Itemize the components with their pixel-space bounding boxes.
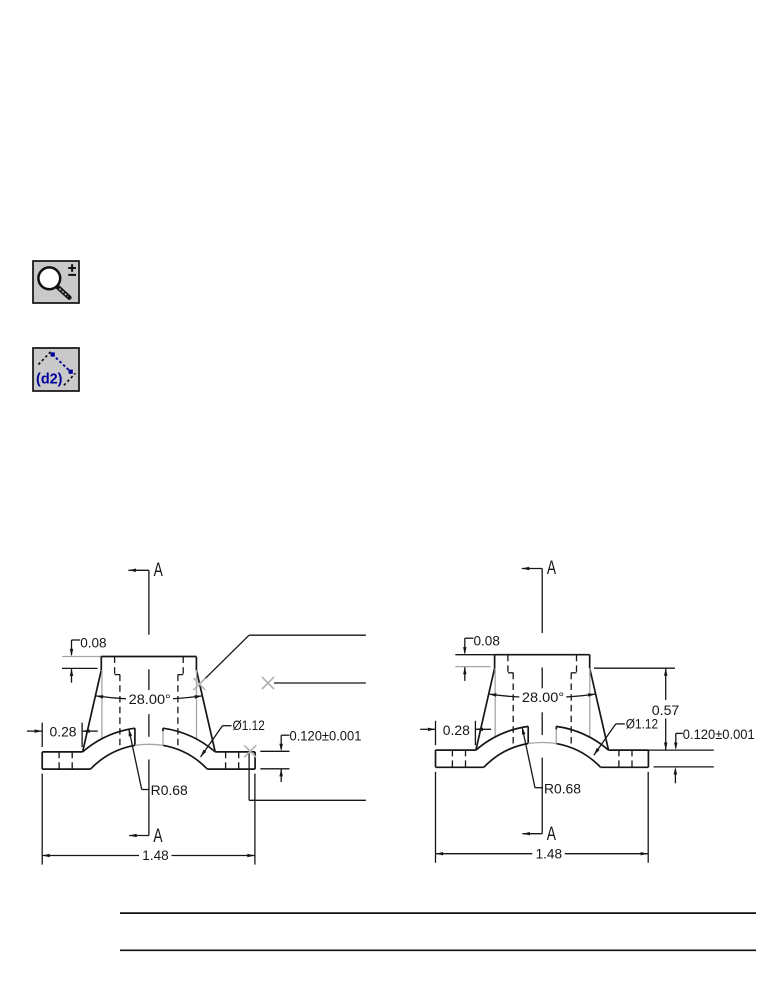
leader radius 0.68: [522, 727, 581, 796]
hole gap edge left: [527, 726, 529, 743]
extension line flange top right: [648, 749, 714, 751]
toolbar icon zoom lens: [38, 267, 60, 289]
flange top edge left: [42, 751, 82, 753]
dimension 0.57: [652, 668, 680, 750]
horizontal rule upper: [120, 912, 756, 914]
inner dome arc left: [91, 745, 135, 769]
hidden step left: [508, 672, 513, 674]
svg-text:0.28: 0.28: [443, 722, 470, 738]
part top edge: [495, 654, 590, 656]
flange left end: [435, 750, 437, 767]
toolbar icon zoom plusminus: [68, 264, 76, 275]
horizontal rule lower: [120, 949, 756, 951]
outer dome arc left: [476, 726, 528, 750]
svg-text:(d2): (d2): [36, 371, 63, 388]
angular dimension 28.00: [96, 691, 203, 707]
hidden line right inner: [570, 673, 572, 747]
inner dome arc right: [556, 744, 600, 768]
hidden line right inner: [177, 675, 179, 749]
dimension 1.48: [436, 772, 649, 863]
flange hidden line 2: [465, 750, 467, 767]
flange right end: [647, 750, 649, 767]
leader callout lower: [249, 751, 366, 800]
hidden step right: [571, 672, 576, 674]
top edge extension (0.08 datum): [455, 654, 494, 656]
top edge extension (0.08 datum): [62, 656, 101, 658]
svg-text:0.28: 0.28: [50, 724, 77, 740]
toolbar icon d2 dashed left: [38, 352, 51, 365]
svg-text:28.00°: 28.00°: [522, 690, 564, 705]
flange hidden line 4: [631, 750, 633, 767]
leader callout middle: [274, 682, 366, 684]
phantom arc across hole: [135, 744, 163, 745]
flange bottom edge left: [436, 766, 484, 768]
svg-text:A: A: [153, 826, 162, 847]
toolbar icon d2 label: [36, 371, 63, 388]
svg-text:A: A: [547, 824, 556, 845]
phantom vertical right: [589, 668, 591, 737]
hidden line left inner: [119, 675, 121, 749]
dimension 0.08: [463, 633, 500, 681]
taper edge right: [196, 670, 215, 752]
svg-text:28.00°: 28.00°: [129, 692, 171, 707]
section marker A top: [128, 560, 163, 581]
section marker A bottom: [522, 824, 556, 845]
hidden line left outer: [507, 655, 509, 673]
section marker A top: [522, 558, 557, 579]
leader diameter 1.12: [201, 718, 265, 757]
hole gap edge right: [162, 728, 164, 745]
inner dome arc left: [484, 744, 528, 768]
toolbar icon zoom handle: [58, 287, 69, 297]
toolbar icon d2 dashed blue: [52, 354, 71, 373]
outer dome arc left: [83, 728, 135, 752]
phantom vertical left: [494, 668, 496, 737]
grip mark on taper: [193, 678, 205, 690]
taper edge right: [590, 668, 609, 750]
flange top edge right: [609, 749, 649, 751]
dimension 0.08: [70, 634, 107, 682]
extension line 0.57 top: [594, 667, 675, 669]
dimension 0.120 lower arrow: [674, 767, 678, 783]
flange hidden line 2: [71, 752, 73, 769]
hole gap edge right: [555, 726, 557, 743]
boss corner edge left: [494, 655, 496, 669]
svg-text:1.48: 1.48: [142, 847, 169, 863]
boss corner edge left: [100, 657, 102, 671]
hidden line left outer: [114, 657, 116, 675]
dimension 0.120 tolerance: [260, 728, 361, 782]
flange right end: [254, 752, 256, 769]
section centerline: [541, 569, 543, 834]
svg-text:R0.68: R0.68: [151, 783, 188, 798]
grip mark on leader: [262, 677, 274, 689]
part top edge: [101, 656, 196, 658]
flange hidden line 3: [225, 752, 227, 769]
hidden line right outer: [576, 655, 578, 673]
taper edge left: [476, 668, 495, 750]
svg-text:0.120±0.001: 0.120±0.001: [683, 726, 755, 742]
dimension 0.28: [27, 723, 98, 747]
svg-text:0.08: 0.08: [80, 634, 107, 650]
flange bottom edge right: [601, 766, 649, 768]
phantom vertical left: [101, 670, 103, 739]
hidden line right outer: [182, 657, 184, 675]
flange left end: [41, 752, 43, 769]
svg-text:A: A: [154, 560, 163, 581]
phantom arc across hole: [528, 743, 556, 744]
extension line 0.08 step: [62, 667, 98, 669]
leader callout upper: [199, 635, 366, 684]
flange hidden line 3: [618, 750, 620, 767]
boss corner edge right: [195, 657, 197, 671]
flange top edge left: [436, 749, 476, 751]
svg-text:0.08: 0.08: [474, 633, 501, 649]
section marker A bottom: [129, 826, 163, 847]
flange top edge right: [215, 751, 255, 753]
section centerline: [148, 570, 150, 835]
leader radius 0.68: [129, 729, 188, 798]
dimension 1.48: [42, 774, 255, 865]
phantom vertical right: [196, 670, 198, 739]
flange hidden line 4: [238, 752, 240, 769]
hidden step left: [115, 674, 120, 676]
flange bottom edge right: [207, 768, 255, 770]
hidden step right: [178, 674, 183, 676]
taper edge left: [83, 670, 102, 752]
angular dimension 28.00: [489, 689, 596, 705]
left section drawing: [27, 560, 362, 865]
outer dome arc right: [556, 726, 608, 750]
toolbar icon d2 grip1: [51, 352, 55, 356]
right section drawing: [420, 558, 755, 863]
grip mark on flange: [244, 745, 256, 757]
svg-text:0.120±0.001: 0.120±0.001: [290, 728, 362, 744]
toolbar icon d2 dashed right: [64, 373, 76, 385]
toolbar icon d2 grip2: [69, 370, 73, 374]
svg-text:1.48: 1.48: [536, 845, 563, 861]
extension line 0.08 step: [455, 666, 491, 668]
hidden line left inner: [512, 673, 514, 747]
flange hidden line 1: [58, 752, 60, 769]
dimension 0.120 tolerance: [674, 726, 755, 750]
svg-text:0.57: 0.57: [652, 702, 680, 718]
svg-text:R0.68: R0.68: [544, 781, 581, 796]
leader diameter 1.12: [594, 716, 658, 755]
toolbar icon d2 box: [33, 348, 79, 391]
flange bottom edge left: [42, 768, 90, 770]
dimension 0.28: [420, 721, 491, 745]
svg-text:Ø1.12: Ø1.12: [626, 716, 658, 731]
boss corner edge right: [589, 655, 591, 669]
flange hidden line 1: [451, 750, 453, 767]
svg-text:A: A: [547, 558, 556, 579]
svg-text:Ø1.12: Ø1.12: [233, 718, 265, 733]
hole gap edge left: [134, 728, 136, 745]
toolbar icon zoom scale box: [33, 261, 79, 303]
extension line flange bottom right: [654, 766, 714, 768]
outer dome arc right: [163, 728, 215, 752]
inner dome arc right: [163, 745, 207, 769]
